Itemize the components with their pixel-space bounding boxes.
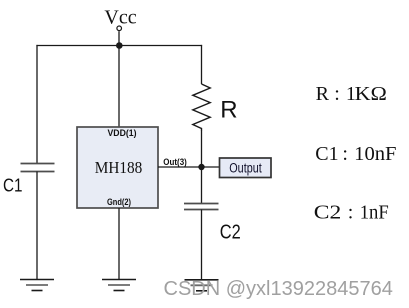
- output port box: [220, 158, 272, 178]
- capacitor C1: [21, 164, 55, 172]
- svg-text:R:1KΩ: R:1KΩ: [316, 83, 387, 105]
- svg-text:Vcc: Vcc: [104, 7, 136, 29]
- svg-text:C2: C2: [220, 222, 241, 244]
- wire Out(3) from IC to output: [158, 166, 220, 168]
- svg-text:Gnd(2): Gnd(2): [107, 197, 131, 208]
- svg-text:C2:1nF: C2:1nF: [314, 201, 389, 223]
- ground (IC branch): [102, 280, 136, 291]
- svg-text:VDD(1): VDD(1): [108, 128, 137, 139]
- junction output node: [198, 164, 204, 170]
- wire Vcc stub: [118, 31, 120, 45]
- wire IC Gnd pin to ground: [118, 208, 120, 280]
- svg-text:C1:10nF: C1:10nF: [315, 143, 396, 165]
- svg-text:C1: C1: [3, 176, 23, 196]
- wire top bus: [36, 45, 202, 47]
- wire C2 top: [201, 167, 203, 204]
- svg-text:R: R: [220, 97, 237, 124]
- wire resistor bottom: [201, 131, 203, 167]
- svg-text:Output: Output: [229, 160, 262, 175]
- junction Vcc node: [116, 42, 123, 49]
- wire C1 to ground: [36, 172, 38, 280]
- wire IC VDD pin: [118, 46, 120, 128]
- capacitor C2: [184, 204, 219, 210]
- wire left branch down to C1: [36, 45, 38, 164]
- ground (C2 branch): [185, 280, 219, 291]
- IC U1 MH188 body: [77, 127, 158, 208]
- svg-text:Out(3): Out(3): [163, 157, 187, 167]
- svg-text:CSDN @yxl13922845764: CSDN @yxl13922845764: [164, 278, 393, 300]
- wire C2 to ground: [201, 210, 203, 280]
- ground (C1 branch): [20, 280, 54, 291]
- Vcc terminal circle: [117, 26, 122, 31]
- svg-text:MH188: MH188: [95, 158, 143, 177]
- wire resistor top: [201, 45, 203, 84]
- resistor R zigzag: [193, 84, 210, 131]
